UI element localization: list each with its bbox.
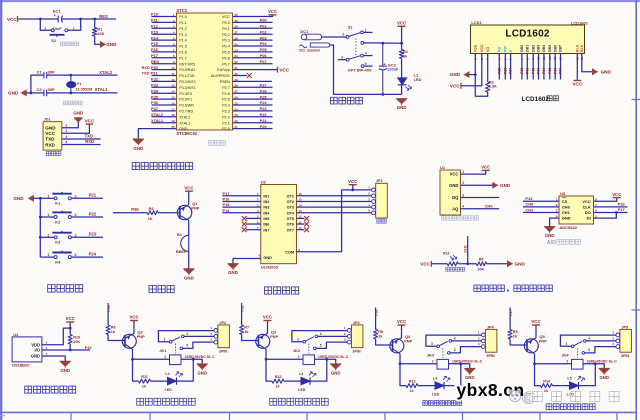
svg-text:P21: P21 — [89, 193, 97, 198]
svg-text:3: 3 — [462, 193, 464, 197]
net label P13 — [151, 29, 159, 34]
ground (LCD right) — [593, 69, 612, 75]
net label P05 — [548, 68, 552, 74]
wire LCD DB0 — [521, 54, 523, 80]
svg-text:2: 2 — [432, 360, 434, 364]
wire OT2 to JP1 — [297, 200, 372, 202]
wire JD1 pin3 TXD — [62, 138, 101, 140]
svg-text:GND: GND — [228, 270, 238, 275]
watermark panda icon — [509, 389, 521, 401]
svg-text:DB5: DB5 — [548, 45, 552, 52]
svg-text:DI: DI — [587, 216, 591, 221]
svg-text:R1: R1 — [97, 28, 102, 32]
svg-text:JK3: JK3 — [427, 353, 435, 358]
svg-text:P17: P17 — [618, 207, 625, 212]
svg-text:IN6: IN6 — [263, 223, 269, 227]
no connect X (IN6) — [242, 222, 247, 227]
svg-text:P07: P07 — [260, 59, 267, 64]
svg-text:DC_Socket: DC_Socket — [299, 48, 320, 53]
svg-text:P12: P12 — [85, 345, 93, 350]
net label P35 — [151, 94, 159, 99]
wire collector to JK1 — [133, 358, 170, 360]
svg-text:U3: U3 — [560, 191, 566, 196]
wire ADC GND — [550, 218, 559, 226]
svg-text:PNP: PNP — [539, 339, 547, 344]
svg-text:2: 2 — [566, 360, 568, 364]
sheet border top — [0, 0, 640, 2]
LED L4 — [432, 376, 450, 396]
wire bottom branch — [31, 92, 44, 94]
svg-text:P04: P04 — [260, 41, 268, 46]
svg-text:L2: L2 — [165, 372, 169, 376]
ground (ADC) — [544, 227, 555, 239]
svg-text:P23: P23 — [89, 232, 97, 237]
svg-text:TXD P31: TXD P31 — [142, 71, 159, 76]
svg-text:P34: P34 — [151, 88, 159, 93]
resistor R4 1K — [147, 207, 158, 221]
wire LCD DB1 — [526, 54, 528, 80]
wire IN3 — [223, 206, 261, 208]
svg-text:3: 3 — [431, 342, 433, 346]
IC U2 ULN2003 body — [261, 179, 297, 269]
net label TXD P31 — [142, 71, 159, 76]
junction — [615, 211, 618, 214]
net label P12 — [151, 24, 159, 29]
transistor Q1 PNP — [177, 201, 199, 220]
pushbutton K1 — [47, 192, 76, 206]
net label P26 — [260, 88, 268, 93]
svg-text:P06: P06 — [260, 53, 268, 58]
net label P25 — [260, 94, 268, 99]
svg-text:R12: R12 — [275, 375, 282, 379]
svg-text:P0.6: P0.6 — [222, 56, 230, 60]
svg-text:CH0: CH0 — [525, 202, 533, 207]
resistor R14 1k — [541, 380, 553, 393]
wire S2 pin 1 up — [68, 19, 81, 30]
svg-text:RS: RS — [498, 46, 502, 52]
wire ADC CLK — [594, 206, 628, 208]
svg-text:1K: 1K — [148, 217, 153, 221]
relay JK4 contact — [560, 335, 615, 358]
text 电机 — [377, 219, 386, 223]
relay JK2 contact — [292, 331, 347, 354]
IC STC1 STC89C52 body — [176, 8, 232, 136]
IC U1 soil sensor body — [440, 165, 464, 215]
net label XTAL2 — [151, 112, 164, 117]
svg-text:P3.4/T0: P3.4/T0 — [179, 92, 192, 96]
svg-text:VCC: VCC — [222, 15, 230, 19]
svg-text:BLA: BLA — [576, 44, 580, 52]
svg-text:RST/VPD: RST/VPD — [179, 62, 195, 66]
svg-text:XTAL2: XTAL2 — [99, 70, 113, 75]
net label P16 — [223, 196, 231, 201]
svg-text:3: 3 — [341, 56, 343, 60]
wire ADC CH0 — [523, 206, 559, 208]
IC U4 DS18B20 body — [12, 332, 48, 367]
photoresistor R11 — [443, 251, 458, 265]
svg-text:P06: P06 — [553, 68, 557, 74]
net label P06 — [260, 53, 268, 58]
net label P02 — [531, 68, 535, 74]
relay JK1 contact — [158, 331, 213, 354]
junction — [30, 92, 33, 95]
svg-text:1SRD-05VDC-SL-C: 1SRD-05VDC-SL-C — [452, 360, 483, 364]
transistor Q5 PNP — [524, 334, 547, 354]
ground (JK1) — [197, 364, 208, 376]
svg-text:P26: P26 — [374, 310, 378, 316]
svg-text:DB4: DB4 — [542, 45, 546, 52]
relay JK4 coil — [561, 353, 583, 370]
svg-text:VCC: VCC — [582, 199, 591, 204]
no connect X (ALE) — [247, 73, 252, 78]
svg-text:LCD1602: LCD1602 — [505, 28, 549, 39]
svg-text:5: 5 — [588, 348, 590, 352]
svg-text:2: 2 — [164, 355, 166, 359]
stub IN6 — [246, 223, 261, 225]
wire CH1 up — [467, 236, 469, 264]
svg-text:CH1: CH1 — [562, 210, 571, 215]
svg-text:P2.5: P2.5 — [222, 98, 230, 102]
svg-text:TXD: TXD — [85, 134, 93, 139]
svg-text:RXD: RXD — [45, 142, 55, 147]
svg-text:VCC: VCC — [279, 67, 289, 72]
svg-text:P37: P37 — [151, 106, 158, 111]
svg-text:VCC: VCC — [268, 9, 277, 14]
wire LCD VO — [487, 54, 489, 83]
net label P21 — [260, 118, 268, 123]
svg-text:VCC: VCC — [45, 131, 55, 136]
watermark ybx8.cn — [457, 380, 525, 400]
wire Q4 collector down — [399, 354, 401, 364]
net label P26 — [374, 310, 378, 316]
svg-text:CH1: CH1 — [464, 245, 468, 253]
wire R13 to L4 — [418, 385, 435, 387]
svg-text:GND: GND — [449, 183, 458, 188]
svg-text:P1.2: P1.2 — [179, 27, 187, 31]
svg-text:R13: R13 — [409, 380, 416, 384]
ground (U2) — [228, 264, 239, 276]
wire MCU pin 22 — [233, 122, 273, 124]
svg-text:BEEP: BEEP — [176, 249, 187, 254]
wire buzzer to GND — [188, 251, 190, 268]
svg-text:DB3: DB3 — [537, 45, 541, 52]
svg-text:R11: R11 — [141, 375, 148, 379]
LED L2 — [165, 372, 183, 392]
wire top branch — [31, 75, 44, 93]
svg-text:GND: GND — [184, 275, 194, 280]
svg-text:P1.0: P1.0 — [179, 15, 187, 19]
svg-text:VCC: VCC — [420, 262, 430, 267]
svg-text:P2.0: P2.0 — [222, 127, 230, 131]
wire R10 to I/O — [69, 344, 71, 350]
LED L3 — [298, 372, 316, 392]
svg-text:R8: R8 — [378, 330, 383, 334]
wire to R12 — [266, 359, 272, 381]
svg-text:4: 4 — [365, 51, 367, 55]
svg-text:VCC: VCC — [7, 17, 17, 22]
wire net to R7 — [241, 303, 243, 325]
net label P14 — [151, 35, 159, 40]
svg-text:5: 5 — [454, 348, 456, 352]
net label CH0 — [485, 204, 493, 209]
wire COM to JP1 pin1 — [297, 190, 372, 252]
no connect X (OT5) — [304, 216, 309, 221]
svg-text:GND: GND — [198, 371, 207, 376]
svg-text:VCC: VCC — [397, 21, 407, 26]
svg-text:P03: P03 — [537, 68, 541, 74]
svg-text:P02: P02 — [531, 68, 535, 74]
svg-text:P3.1/TxD: P3.1/TxD — [179, 74, 195, 78]
svg-text:R10: R10 — [73, 335, 80, 339]
net label P17 — [151, 53, 158, 58]
watermark @吃小竹子丫 — [522, 390, 619, 405]
text 单片机 — [209, 141, 226, 146]
svg-text:C1: C1 — [37, 70, 42, 74]
net label P02 — [260, 29, 268, 34]
svg-text:P05: P05 — [548, 68, 552, 74]
svg-text:1: 1 — [65, 124, 67, 128]
relay JK2 coil — [293, 348, 315, 365]
svg-text:LCD1602: LCD1602 — [571, 21, 588, 26]
svg-text:JK4: JK4 — [561, 353, 569, 358]
stub OT6 — [297, 223, 305, 225]
svg-text:IN4: IN4 — [263, 211, 270, 215]
wire LCD VCC pin — [461, 54, 482, 86]
svg-text:LCD1602: LCD1602 — [522, 96, 550, 103]
net label P17 — [223, 191, 230, 196]
svg-text:P05: P05 — [260, 47, 268, 52]
svg-text:P2.2: P2.2 — [222, 115, 230, 119]
IC LCD1 pin names — [474, 44, 585, 52]
svg-text:JP3: JP3 — [353, 321, 360, 325]
svg-text:VCC: VCC — [612, 192, 621, 197]
svg-text:P0.3: P0.3 — [222, 39, 230, 43]
junction — [39, 216, 42, 219]
resistor R7 1k — [240, 325, 250, 335]
wire to K2 — [40, 216, 54, 218]
junction — [325, 358, 328, 361]
wire LCD DB6 — [554, 54, 556, 80]
resistor R11 1k — [139, 375, 151, 388]
wire collector to JK3 — [400, 363, 437, 365]
wire JK3 coil right — [449, 364, 470, 368]
svg-text:P10: P10 — [151, 12, 158, 17]
wire MCU pin 2 — [152, 21, 177, 23]
svg-text:GND: GND — [31, 354, 40, 359]
sheet border left — [0, 0, 2, 420]
svg-text:K3: K3 — [55, 240, 61, 245]
net label P22 — [260, 112, 268, 117]
connector JP5 3PIN — [612, 326, 631, 359]
net label P22 — [89, 211, 97, 216]
svg-text:3: 3 — [164, 337, 166, 341]
wire LCD BLK — [582, 54, 593, 72]
svg-text:P1.3: P1.3 — [179, 33, 187, 37]
junction — [474, 73, 477, 76]
svg-text:220uF: 220uF — [387, 68, 399, 72]
svg-text:IN7: IN7 — [263, 228, 269, 232]
svg-text:30P: 30P — [48, 88, 55, 92]
IC LCD1 pin numbers — [473, 56, 584, 60]
svg-text:P12: P12 — [151, 24, 159, 29]
svg-text:GND: GND — [60, 368, 70, 373]
svg-text:GND: GND — [263, 256, 272, 260]
svg-text:OT6: OT6 — [287, 223, 294, 227]
svg-text:R5: R5 — [479, 257, 484, 261]
wire MCU pin 16 — [152, 104, 177, 106]
junction — [351, 189, 354, 192]
wire U1 GND — [461, 184, 493, 186]
wire U1 VCC — [461, 171, 486, 175]
wire MCU pin 5 — [152, 39, 177, 41]
net label P27 — [509, 310, 513, 316]
svg-text:10K: 10K — [477, 267, 484, 271]
power port VCC (stepper) — [348, 179, 358, 185]
resistor R8 1k — [374, 330, 384, 340]
svg-text:L5: L5 — [567, 377, 571, 381]
svg-text:P13: P13 — [525, 196, 533, 201]
svg-text:P35: P35 — [151, 94, 159, 99]
wire JK2 coil right — [315, 359, 336, 363]
net label P10 — [151, 12, 158, 17]
wire R11 to R5 — [458, 263, 476, 265]
text 晶振电路 — [64, 101, 83, 105]
wire to S2 pin 2 — [40, 19, 51, 30]
net label CH1 — [464, 245, 468, 253]
wire VCC to EC1 — [18, 18, 58, 20]
ground (soil) — [493, 182, 511, 188]
svg-text:PNP: PNP — [404, 339, 412, 344]
svg-text:VCC: VCC — [450, 84, 460, 89]
ground (JK3) — [464, 368, 475, 380]
wire VCC drop — [352, 185, 354, 190]
svg-text:P00: P00 — [260, 18, 267, 23]
wire MCU pin 19 — [152, 122, 177, 124]
resistor R2 1k — [399, 49, 408, 58]
wire to K1 — [40, 197, 54, 199]
svg-text:VCC: VCC — [450, 172, 459, 177]
power port VCC (Q4) — [397, 319, 407, 325]
svg-text:P1.4: P1.4 — [179, 39, 187, 43]
connector JP3 3PIN — [344, 321, 363, 354]
svg-text:CH1: CH1 — [525, 207, 534, 212]
wire MCU pin 12 — [152, 80, 177, 82]
wire MCU pin 4 — [152, 33, 177, 35]
wire S1 pin4 stub — [363, 55, 372, 57]
wire L3 return — [310, 359, 327, 381]
net label P14 — [223, 208, 231, 213]
LED L1 — [398, 73, 422, 91]
svg-text:P07: P07 — [559, 68, 563, 74]
wire Q5 collector down — [534, 354, 536, 364]
net label P11 — [151, 18, 159, 23]
junction — [39, 18, 42, 21]
svg-text:XTAL2: XTAL2 — [151, 112, 164, 117]
svg-text:RXD P30: RXD P30 — [142, 65, 158, 70]
svg-text:P11: P11 — [240, 305, 244, 311]
net label XTAL1 — [95, 87, 109, 92]
ground (buttons) — [13, 195, 33, 201]
svg-text:GND: GND — [73, 111, 83, 116]
wire MCU pin 9 — [152, 63, 177, 65]
svg-text:GND: GND — [601, 70, 612, 75]
svg-text:3: 3 — [297, 337, 299, 341]
svg-text:PNP: PNP — [270, 334, 278, 339]
wire U1 AQ — [461, 208, 500, 210]
svg-text:P20: P20 — [260, 124, 267, 129]
net label P24 — [260, 100, 268, 105]
resistor R6 1k — [106, 325, 116, 335]
resistor R3 1.3K — [486, 81, 497, 93]
svg-text:P2.6: P2.6 — [222, 92, 230, 96]
svg-text:XTAL2: XTAL2 — [179, 115, 190, 119]
wire MCU pin 37 — [233, 33, 273, 35]
ground (JK2) — [330, 364, 341, 376]
svg-text:P20: P20 — [131, 207, 139, 212]
svg-text:K2: K2 — [55, 219, 61, 224]
wire MCU pin 33 — [233, 57, 273, 59]
svg-text:VCC: VCC — [263, 315, 273, 320]
pushbutton S2 — [44, 27, 75, 43]
net label P16 — [151, 47, 159, 52]
svg-text:U4: U4 — [13, 332, 19, 337]
svg-text:K1: K1 — [55, 201, 61, 206]
svg-text:P3.0/RxD: P3.0/RxD — [179, 68, 195, 72]
wire MCU pin 25 — [233, 104, 273, 106]
power port VCC (Q3) — [263, 315, 273, 321]
svg-text:P26: P26 — [260, 88, 268, 93]
wire MCU pin 36 — [233, 39, 273, 41]
junction — [381, 93, 384, 96]
wire MCU pin 14 — [152, 92, 177, 94]
svg-text:VCC: VCC — [184, 185, 194, 190]
switch S1 KFT DIP-4X6 — [341, 25, 372, 72]
wire socket to S1 pin2 — [322, 36, 347, 38]
wire L4 return — [444, 364, 461, 386]
svg-text:P22: P22 — [89, 211, 97, 216]
svg-text:U2: U2 — [261, 179, 267, 184]
net label P01 — [525, 68, 529, 74]
svg-text:JP5: JP5 — [621, 326, 628, 330]
svg-text:P10: P10 — [107, 305, 111, 311]
net label P00 — [260, 18, 267, 23]
power port VCC (LCD) — [450, 83, 461, 89]
wire LCD E — [510, 54, 512, 80]
ground (JD1) — [73, 111, 83, 122]
svg-text:4: 4 — [186, 332, 188, 336]
svg-text:GND: GND — [8, 91, 19, 96]
svg-text:VCC: VCC — [66, 316, 76, 321]
junction — [400, 42, 403, 45]
wire VCC to R11 — [431, 263, 447, 265]
svg-text:S2: S2 — [51, 38, 57, 43]
wire R12 to L3 — [284, 380, 301, 382]
svg-text:ULN2003: ULN2003 — [261, 264, 279, 269]
svg-text:3PIN: 3PIN — [621, 354, 630, 358]
svg-text:P36: P36 — [151, 100, 159, 105]
svg-text:VCC: VCC — [531, 319, 541, 324]
capacitor C1 30P — [37, 70, 55, 78]
net label P04 — [542, 68, 546, 74]
wire MCU pin 7 — [152, 51, 177, 53]
net label P23 — [89, 232, 97, 237]
svg-text:XTAL1: XTAL1 — [151, 118, 164, 123]
label 1SRD-05VDC-SL-C (JK4) — [587, 360, 618, 364]
svg-text:GND: GND — [562, 216, 571, 221]
svg-text:LCD1: LCD1 — [471, 20, 482, 25]
wire Q5 emitter to VCC — [535, 325, 537, 338]
svg-text:P1.1: P1.1 — [179, 21, 187, 25]
